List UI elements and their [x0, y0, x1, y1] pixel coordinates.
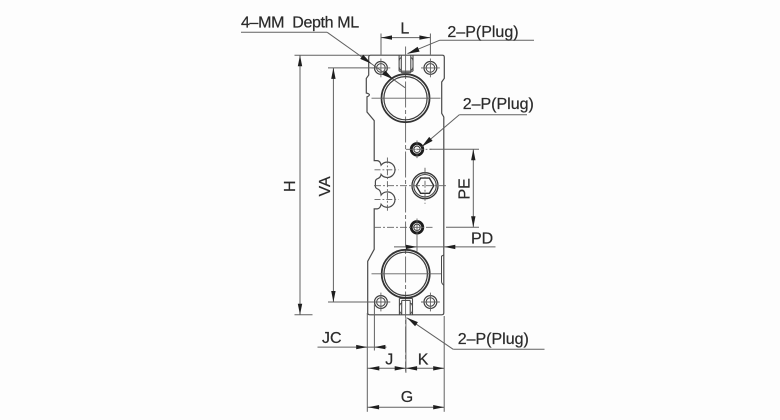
top circle horizontal centerline [372, 97, 441, 99]
dimension PE [430, 149, 480, 227]
svg-text:PE: PE [456, 178, 473, 199]
dimension VA [328, 68, 378, 302]
bottom port boss (threaded, section view) [399, 298, 412, 314]
svg-text:J: J [385, 351, 393, 368]
leader 2-P(Plug) top [408, 40, 535, 53]
mounting hole bottom-right [424, 296, 437, 309]
bottom circle horizontal centerline [372, 273, 442, 275]
svg-text:H: H [282, 180, 299, 192]
svg-text:4–MM Depth ML: 4–MM Depth ML [241, 15, 359, 32]
svg-text:VA: VA [317, 176, 334, 196]
svg-text:2–P(Plug): 2–P(Plug) [447, 24, 518, 41]
svg-text:JC: JC [322, 330, 342, 347]
svg-text:2–P(Plug): 2–P(Plug) [463, 96, 534, 113]
svg-text:K: K [418, 351, 429, 368]
leader 2-P(Plug) middle [422, 115, 527, 147]
dimensions J and K [367, 316, 444, 412]
main vertical centerline [405, 47, 407, 372]
hexagon [416, 178, 434, 193]
small plug port upper (2-P Plug) [411, 144, 423, 156]
small plug port lower (PD port) [411, 222, 423, 234]
bottom large port circle [382, 250, 430, 298]
PD port vertical extension [416, 219, 418, 252]
svg-text:L: L [400, 21, 409, 38]
mounting hole top-right [424, 62, 437, 75]
leader 2-P(Plug) bottom [407, 318, 544, 349]
svg-text:2–P(Plug): 2–P(Plug) [458, 331, 529, 348]
wavy profile centerlines [375, 158, 399, 213]
svg-text:G: G [401, 389, 413, 406]
dimension JC [318, 305, 387, 412]
leader 4-MM Depth ML [241, 32, 405, 87]
dimension PD [394, 246, 496, 248]
right-side groove edge near bottom port [442, 255, 444, 285]
svg-text:PD: PD [471, 230, 493, 247]
top large port circle [382, 74, 430, 122]
dimension L [381, 34, 430, 55]
dimension H [295, 55, 370, 315]
dimension G [367, 406, 444, 408]
mounting hole bottom-left [375, 296, 388, 309]
hex socket plug (PE port) [412, 173, 438, 199]
top port boss (threaded, section view) [399, 55, 413, 72]
mounting hole top-left [375, 62, 388, 75]
plate body outline [366, 55, 444, 315]
